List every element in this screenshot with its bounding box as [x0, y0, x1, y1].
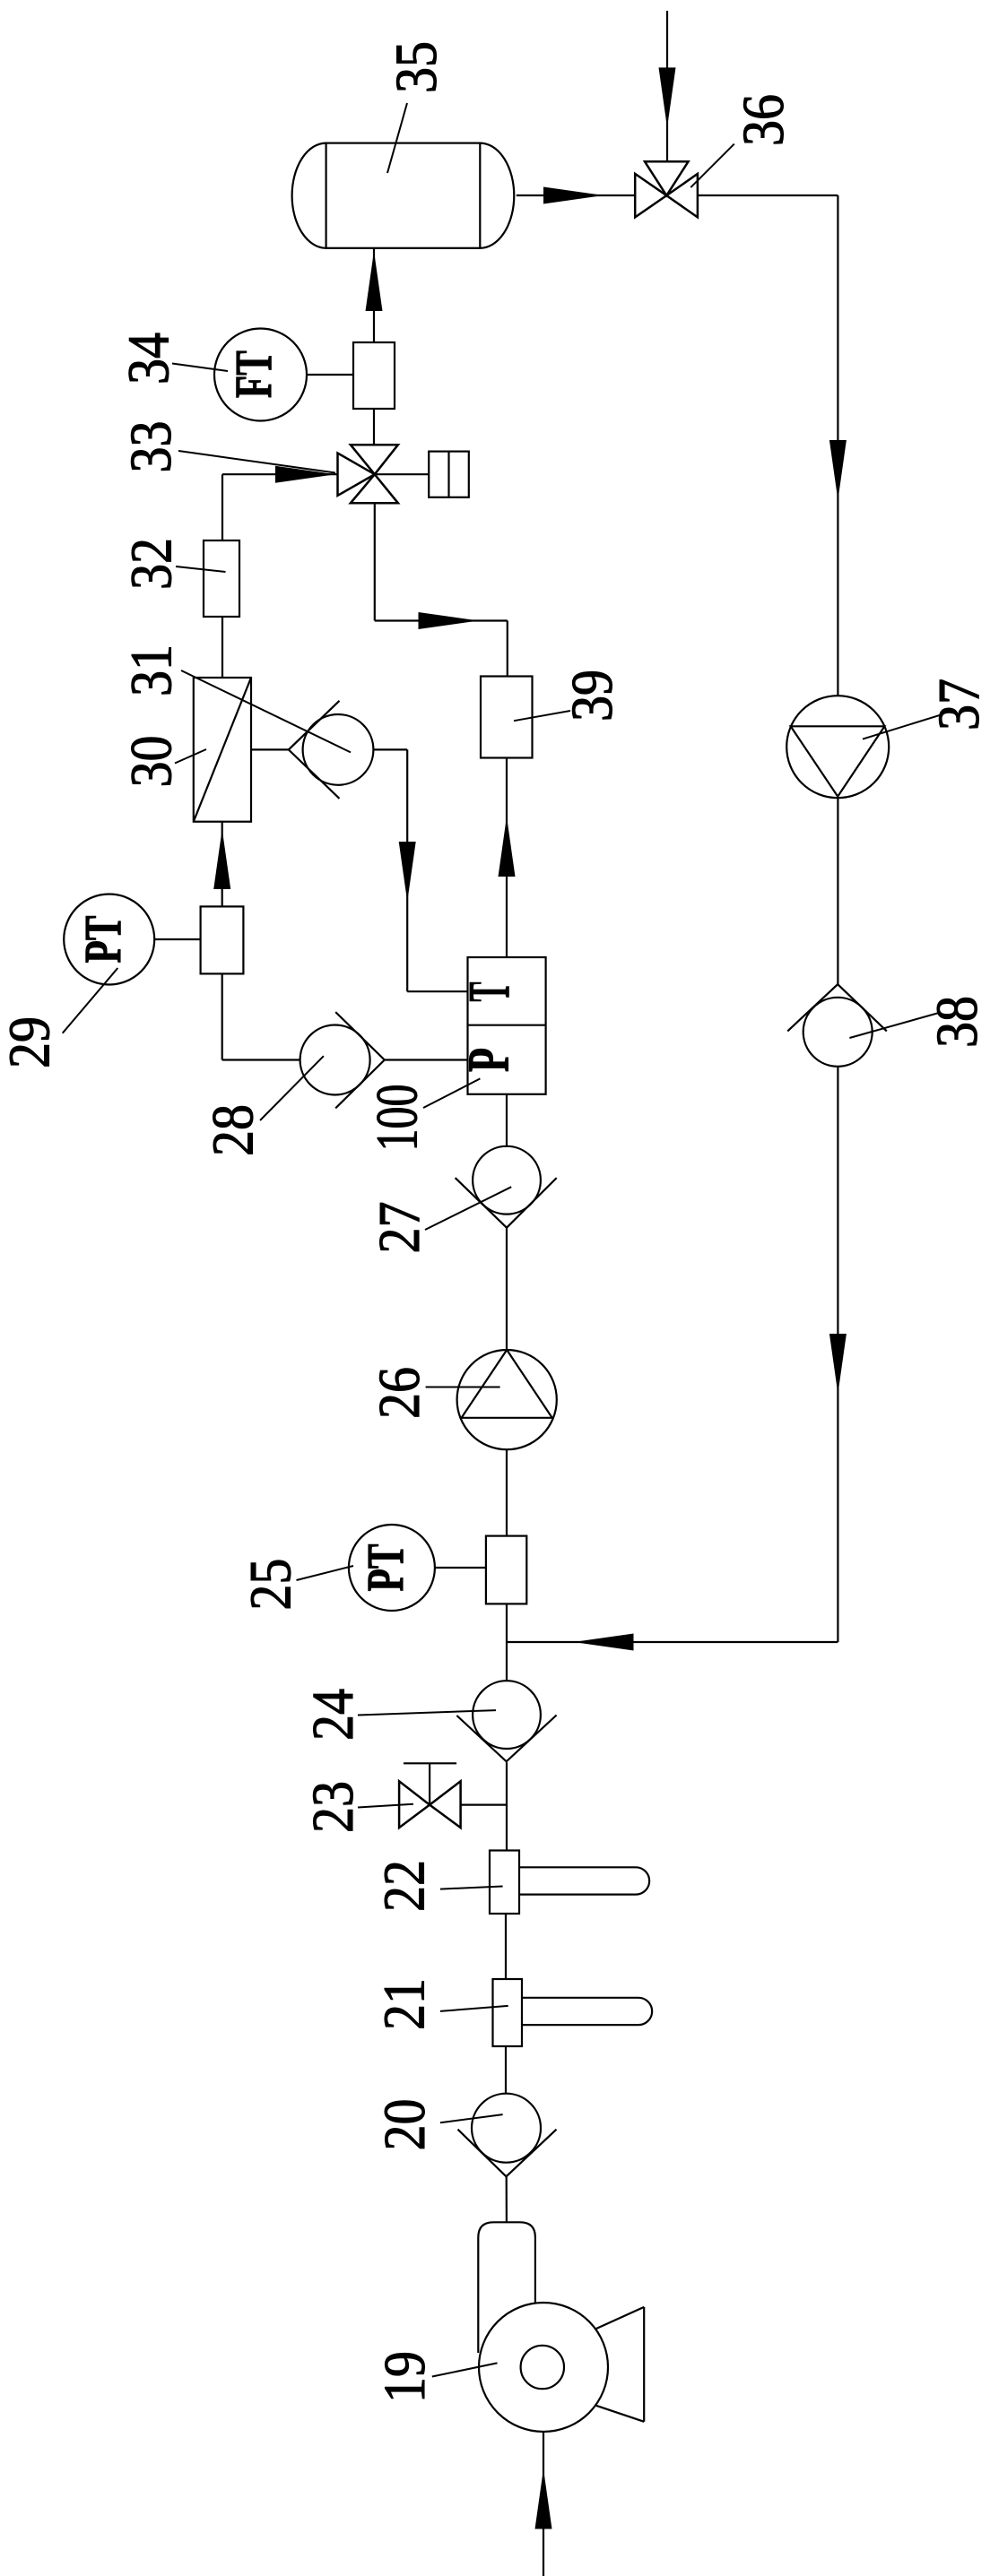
- label 29: [0, 968, 117, 1068]
- wire PT 29 to its box: [155, 938, 201, 940]
- label 20: [372, 2099, 503, 2151]
- box 39: [481, 677, 533, 758]
- hand valve 23: [399, 1763, 460, 1828]
- svg-text:35: 35: [384, 41, 449, 93]
- sensor box of PT 25: [486, 1536, 526, 1604]
- check valve 27: [456, 1146, 557, 1228]
- wire branch to valve 23: [461, 1803, 507, 1805]
- flow arrow down on return drop: [829, 1334, 847, 1394]
- pressure sensor PT 29: [64, 895, 154, 985]
- svg-text:19: 19: [372, 2351, 438, 2403]
- flow arrow right on elbow to box 39: [419, 612, 479, 629]
- wire FT 34 to sensor box: [308, 374, 354, 376]
- wire box 25 to check valve 24: [506, 1604, 508, 1681]
- flow arrow up into box 39: [499, 817, 516, 877]
- svg-text:PT: PT: [74, 916, 132, 964]
- wire check valve 38 to return corner: [837, 1067, 838, 1642]
- label 25: [239, 1559, 353, 1611]
- flow arrow up into membrane 30: [213, 829, 230, 889]
- label 28: [201, 1056, 324, 1156]
- svg-text:22: 22: [372, 1860, 438, 1912]
- wire blower 19 outlet: [543, 2432, 544, 2576]
- pump 26: [457, 1350, 557, 1449]
- svg-text:FT: FT: [224, 350, 282, 398]
- svg-text:P: P: [456, 1048, 522, 1072]
- check valve 31: [289, 701, 374, 799]
- wire check valve 20 to blower 19: [506, 2176, 508, 2222]
- label 36: [690, 94, 796, 187]
- label 32: [119, 538, 226, 590]
- wire tank 35 to valve 36: [517, 194, 635, 196]
- heater 21: [493, 1979, 653, 2046]
- label 27: [367, 1187, 511, 1253]
- flow sensor FT 34: [214, 329, 307, 421]
- flow arrow right tank outlet: [543, 187, 604, 204]
- wire valve 33 to mixer box 39: [375, 503, 508, 676]
- wire inlet to valve 36: [666, 11, 668, 161]
- check valve 38: [787, 984, 887, 1067]
- membrane module 30: [194, 678, 251, 822]
- label 34: [117, 333, 229, 385]
- flow arrow up into blower 19: [535, 2469, 552, 2529]
- wire FT box to valve 33: [373, 409, 375, 445]
- svg-text:30: 30: [119, 736, 185, 788]
- wire into valve 33 from filter 32: [222, 474, 338, 540]
- flow arrow up into tank 35: [366, 251, 383, 311]
- label 100: [365, 1078, 481, 1151]
- wire box 39 to P/T block: [506, 758, 508, 958]
- check valve 20: [458, 2094, 557, 2177]
- label 31: [119, 644, 351, 752]
- wire heater 22 to heater 21: [505, 1914, 507, 1979]
- wire membrane 30 to check valve 31: [251, 748, 289, 750]
- check valve 24: [456, 1681, 556, 1761]
- svg-text:100: 100: [365, 1085, 430, 1152]
- flow arrow right into valve 33: [275, 466, 335, 483]
- svg-text:21: 21: [372, 1978, 438, 2030]
- label 38: [849, 996, 990, 1048]
- svg-text:34: 34: [117, 333, 182, 385]
- wire check valve 31 to T box: [373, 749, 467, 991]
- svg-text:39: 39: [560, 670, 625, 722]
- svg-text:29: 29: [0, 1016, 63, 1068]
- blower 19: [478, 2222, 644, 2432]
- label 19: [372, 2351, 498, 2403]
- wire pump 37 to check valve 38: [837, 798, 838, 984]
- svg-text:PT: PT: [356, 1544, 414, 1592]
- pressure sensor PT 25: [349, 1525, 435, 1611]
- wire check valve 27 to pump 26: [506, 1228, 508, 1350]
- pump 37: [786, 696, 889, 798]
- svg-text:37: 37: [926, 679, 990, 730]
- wire tank 35 bottom to FT box: [373, 248, 375, 342]
- svg-text:T: T: [456, 982, 522, 1002]
- svg-text:31: 31: [119, 644, 185, 696]
- svg-text:28: 28: [201, 1104, 266, 1156]
- label 26: [367, 1367, 500, 1419]
- svg-text:24: 24: [300, 1689, 366, 1741]
- sensor box of FT 34: [353, 342, 395, 409]
- svg-text:20: 20: [372, 2099, 438, 2151]
- flow arrow down into valve 36: [659, 67, 676, 127]
- label 21: [372, 1978, 508, 2030]
- label 33: [118, 421, 335, 473]
- svg-text:36: 36: [731, 94, 796, 146]
- svg-text:33: 33: [118, 421, 184, 473]
- wire filter 32 to membrane 30: [221, 617, 223, 678]
- label 24: [300, 1689, 496, 1741]
- svg-text:27: 27: [367, 1202, 432, 1254]
- svg-text:38: 38: [925, 996, 990, 1048]
- tank 35: [292, 143, 515, 248]
- wire check valve 24 to heater 22: [506, 1762, 508, 1850]
- svg-text:32: 32: [119, 538, 185, 590]
- wire valve 36 to right loop corner: [698, 195, 838, 696]
- wire heater 21 to check valve 20: [505, 2046, 507, 2093]
- label 30: [119, 736, 206, 788]
- P/T sensor block 100: [456, 957, 546, 1094]
- filter 32: [204, 540, 239, 617]
- wire P/T block to check valve 27: [506, 1094, 508, 1146]
- label 37: [863, 679, 990, 739]
- label 39: [514, 670, 625, 722]
- wire pump 26 to sensor box 25: [506, 1449, 508, 1535]
- svg-text:23: 23: [300, 1781, 366, 1833]
- three-way valve 33: [338, 445, 430, 503]
- valve 36: [635, 161, 698, 217]
- label 23: [300, 1781, 413, 1833]
- actuator box of valve 33: [429, 452, 469, 497]
- flow arrow down to pump 37: [829, 440, 847, 500]
- wire check valve 28 to P box: [385, 1059, 468, 1060]
- flow arrow down on permeate line: [399, 842, 416, 902]
- flow arrow left on return line: [574, 1634, 634, 1651]
- wire membrane 30 bottom to sensor box 29: [221, 822, 223, 907]
- wire box 29 down to check valve 28: [222, 973, 300, 1059]
- wire return line to main junction: [507, 1641, 838, 1643]
- label 35: [384, 41, 449, 173]
- wire PT 25 to its box: [435, 1567, 486, 1569]
- label 22: [372, 1860, 503, 1912]
- heater 22: [490, 1851, 649, 1915]
- check valve 28: [300, 1012, 385, 1108]
- svg-text:25: 25: [239, 1559, 304, 1611]
- sensor box of PT 29: [201, 906, 244, 973]
- svg-text:26: 26: [367, 1367, 432, 1419]
